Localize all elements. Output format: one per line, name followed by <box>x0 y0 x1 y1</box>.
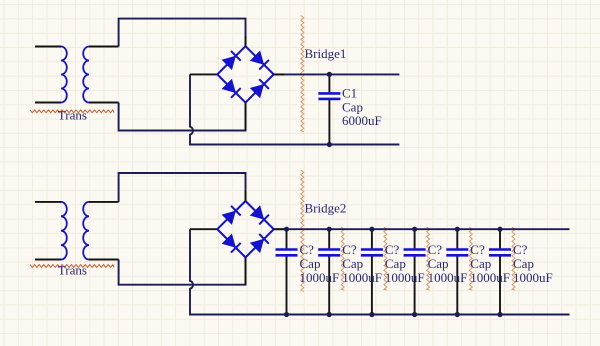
svg-text:Bridge1: Bridge1 <box>305 46 347 61</box>
svg-text:1000uF: 1000uF <box>513 270 553 285</box>
svg-text:C?: C? <box>513 242 528 257</box>
svg-text:C?: C? <box>385 242 400 257</box>
svg-text:Cap: Cap <box>513 256 534 271</box>
svg-text:Cap: Cap <box>300 256 321 271</box>
svg-text:1000uF: 1000uF <box>470 270 510 285</box>
svg-text:Trans: Trans <box>58 262 87 277</box>
svg-text:Cap: Cap <box>428 256 449 271</box>
svg-text:Cap: Cap <box>385 256 406 271</box>
svg-text:C?: C? <box>428 242 443 257</box>
svg-text:Trans: Trans <box>58 107 87 122</box>
svg-text:1000uF: 1000uF <box>300 270 340 285</box>
svg-text:1000uF: 1000uF <box>428 270 468 285</box>
svg-text:Cap: Cap <box>342 256 363 271</box>
svg-text:1000uF: 1000uF <box>342 270 382 285</box>
svg-text:Cap: Cap <box>470 256 491 271</box>
svg-text:1000uF: 1000uF <box>385 270 425 285</box>
svg-text:C?: C? <box>342 242 357 257</box>
svg-text:Bridge2: Bridge2 <box>305 200 347 215</box>
svg-text:C?: C? <box>470 242 485 257</box>
svg-text:6000uF: 6000uF <box>342 113 382 128</box>
svg-text:C?: C? <box>300 242 315 257</box>
